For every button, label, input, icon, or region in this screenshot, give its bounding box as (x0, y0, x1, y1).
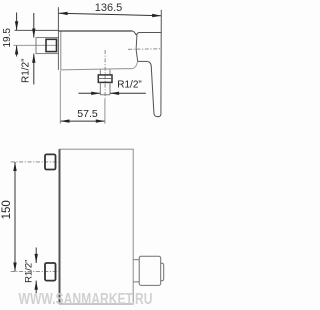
inlet pipe (side view) (36, 38, 58, 54)
front body left edge (wall plate) (59, 149, 61, 304)
cap top edge (136, 33, 161, 36)
extension line 57.5 left (59, 71, 61, 124)
handle tab (front view) (161, 263, 164, 281)
inlet nut (side view) (46, 39, 57, 51)
dimension 57.5 (60, 120, 105, 122)
body top edge (58, 30, 132, 32)
body bottom edge (61, 69, 133, 70)
body-to-cap top joint (132, 31, 136, 35)
dimension R1/2 bottom (outlet) (78, 92, 145, 94)
extension line left (wall face) (57, 7, 59, 31)
upper connector centerline (11, 161, 59, 163)
outlet upper stub (99, 70, 101, 75)
cone left silhouette (136, 34, 138, 62)
svg-text:WWW.SANMARKET.RU: WWW.SANMARKET.RU (19, 291, 153, 308)
cartridge centerline (128, 48, 161, 51)
handle body box (front view) (139, 256, 161, 285)
svg-text:19.5: 19.5 (2, 28, 13, 48)
dimension 19.5 arrowheads (15, 21, 18, 54)
svg-text:150: 150 (1, 200, 13, 219)
wall plate (57, 31, 59, 70)
lower connector centerline (11, 271, 59, 273)
upper connector nut (45, 154, 56, 169)
outlet nut (98, 75, 112, 83)
svg-text:R1/2”: R1/2” (20, 59, 31, 83)
svg-text:136.5: 136.5 (95, 2, 123, 14)
barrel bottom to cone join (133, 61, 138, 68)
extension line body-top (15, 29, 59, 31)
extension line 57.5 right (104, 99, 106, 124)
lower connector nut (45, 263, 56, 281)
outlet lower stub (99, 82, 101, 94)
dimension 136.5 line (59, 13, 162, 16)
dimension R1/2 left arrowheads (32, 29, 35, 63)
dimension R1/2 front (tails) (35, 248, 37, 294)
front body rectangle (60, 149, 134, 304)
svg-text:R1/2”: R1/2” (23, 260, 34, 283)
extension line right / handle right edge (160, 10, 162, 114)
dimension 19.5 line (tails) (16, 13, 18, 57)
extension line connector centerline (13, 44, 57, 46)
handle lever outline (147, 61, 161, 116)
dimension 136.5 arrowheads (59, 12, 162, 18)
svg-text:57.5: 57.5 (77, 108, 98, 120)
outlet centerline (vertical) (104, 50, 106, 99)
dimension 150 (14, 162, 16, 272)
dimension R1/2 left line (tails) (33, 13, 35, 85)
svg-text:R1/2”: R1/2” (117, 80, 141, 91)
cap bottom edge (138, 60, 148, 62)
handle neck (front view) (133, 259, 139, 261)
